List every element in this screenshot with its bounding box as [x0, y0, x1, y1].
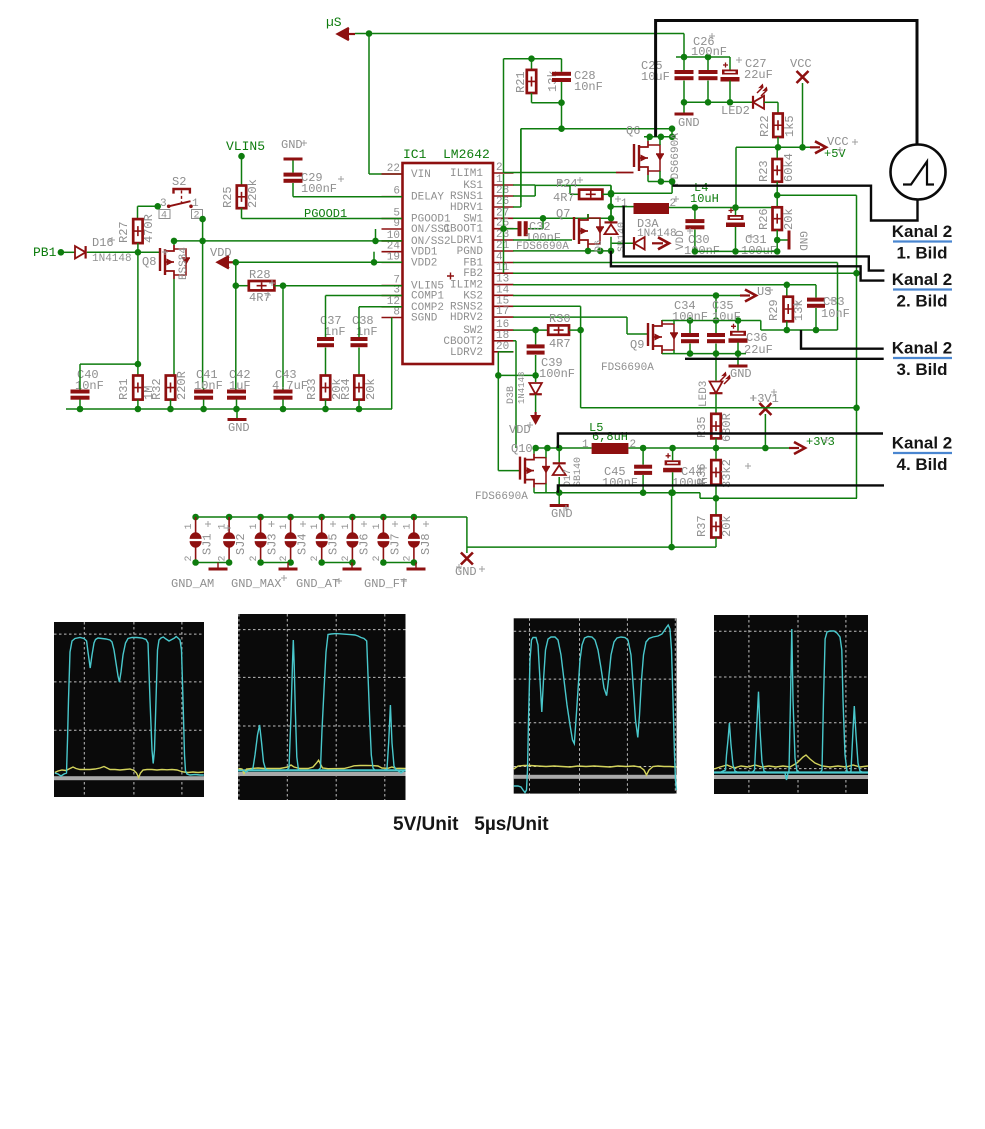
probe line 3. Bild a	[801, 330, 884, 349]
ground GND below C36	[737, 354, 739, 365]
svg-text:D6: D6	[594, 240, 605, 252]
jumper SJ6	[349, 514, 356, 521]
svg-text:2: 2	[310, 555, 321, 561]
wire RSNS1 row	[513, 195, 535, 197]
diode D3B 1N4148	[535, 375, 537, 382]
svg-text:+3V3: +3V3	[806, 435, 835, 449]
svg-text:GND: GND	[228, 421, 250, 435]
capacitor C44 100uF	[672, 448, 674, 460]
wire PGOOD1 net	[241, 208, 243, 218]
svg-text:4R7: 4R7	[549, 337, 571, 351]
wire SJ bottoms	[196, 562, 230, 564]
wire S2 pin3 to R27	[154, 203, 161, 210]
wire SW1 bottom node	[608, 248, 615, 255]
svg-text:SJ5: SJ5	[327, 533, 341, 555]
svg-text:IC1: IC1	[403, 147, 427, 162]
svg-text:SJ4: SJ4	[296, 533, 310, 555]
jumper SJ7	[380, 514, 387, 521]
svg-text:Kanal 2: Kanal 2	[892, 222, 952, 241]
wire PGND1 node	[695, 250, 777, 252]
svg-text:1: 1	[192, 198, 199, 210]
oscilloscope screenshot 1	[54, 622, 204, 797]
svg-text:Kanal 2: Kanal 2	[892, 339, 952, 358]
svg-text:R26: R26	[757, 208, 771, 230]
wire µS net	[355, 33, 684, 35]
svg-text:33k2: 33k2	[720, 459, 734, 488]
net flag US arrow	[740, 294, 750, 296]
svg-text:R36: R36	[695, 463, 709, 485]
capacitor C31 100uF	[735, 208, 737, 216]
svg-text:26: 26	[496, 196, 509, 208]
wire D16 to Q8	[87, 251, 160, 253]
svg-text:ILIM1: ILIM1	[450, 168, 483, 180]
wire ch2 input node top	[662, 320, 761, 322]
jumper SJ4	[287, 514, 294, 521]
net flag VDD down arrow	[535, 395, 537, 413]
wire KS2 row US	[513, 295, 740, 297]
net flag +5V arrow	[810, 146, 820, 148]
svg-text:2: 2	[402, 555, 413, 561]
svg-text:GND: GND	[678, 116, 700, 130]
svg-text:D16: D16	[92, 236, 114, 250]
wire LDRV2 to Q10 gate	[498, 351, 513, 353]
wire divider2 bottom node	[761, 329, 838, 331]
wire R21 C28 bottom	[531, 93, 533, 103]
svg-text:COMP1: COMP1	[411, 291, 444, 303]
jumper SJ5	[318, 514, 325, 521]
wire Q6 drain node	[644, 136, 672, 138]
svg-text:2: 2	[194, 211, 200, 222]
svg-text:R35: R35	[695, 416, 709, 438]
svg-text:R37: R37	[695, 515, 709, 537]
svg-text:100nF: 100nF	[691, 45, 727, 59]
wire RSNS2 long row	[581, 407, 857, 409]
jumper SJ3	[257, 514, 264, 521]
svg-text:5V/Unit 5µs/Unit: 5V/Unit 5µs/Unit	[393, 814, 549, 835]
svg-text:R33: R33	[305, 378, 319, 400]
svg-text:4: 4	[161, 211, 167, 222]
svg-text:R34: R34	[339, 378, 353, 400]
svg-text:100nF: 100nF	[301, 182, 337, 196]
svg-text:GND_MAX: GND_MAX	[231, 577, 281, 591]
capacitor C26	[707, 57, 709, 70]
resistor R37 20k	[715, 498, 717, 515]
capacitor C39 100nF	[527, 344, 545, 348]
capacitor C27	[729, 57, 731, 70]
svg-text:GND: GND	[281, 138, 303, 152]
svg-text:2: 2	[249, 555, 260, 561]
oscilloscope screenshot 3	[514, 618, 677, 793]
jumper SJ2	[226, 514, 233, 521]
resistor R34 20k	[354, 376, 363, 400]
svg-text:PB1: PB1	[33, 245, 57, 260]
svg-text:CBOOT1: CBOOT1	[443, 224, 483, 236]
wire SW2 output node	[534, 447, 592, 449]
svg-text:VIN: VIN	[411, 169, 431, 181]
svg-text:LDRV2: LDRV2	[450, 347, 483, 359]
wire HDRV2 to Q9 gate	[513, 316, 627, 318]
svg-text:R23: R23	[757, 160, 771, 182]
wire row4 to divider2	[513, 262, 838, 264]
svg-text:GND_AT: GND_AT	[296, 577, 339, 591]
svg-text:1nF: 1nF	[324, 325, 346, 339]
svg-text:SGND: SGND	[411, 313, 438, 325]
ic IC1 left pins	[382, 173, 403, 175]
wire +3V3 net	[628, 447, 789, 449]
svg-text:LED2: LED2	[721, 104, 750, 118]
ground flag GND X	[466, 517, 468, 553]
resistor R22 1k5	[773, 114, 782, 138]
svg-text:D3B: D3B	[506, 386, 517, 404]
resistor R35 680R	[715, 394, 717, 414]
svg-text:470R: 470R	[142, 214, 156, 243]
probe line 2. Bild a	[624, 206, 885, 271]
diode D3A 1N4148	[612, 242, 634, 244]
svg-text:VCC: VCC	[790, 57, 812, 71]
oscilloscope screenshot 2	[238, 614, 406, 800]
wire +5V node	[777, 137, 779, 147]
svg-text:22: 22	[387, 163, 400, 175]
capacitor C45 100nF	[642, 448, 644, 465]
svg-text:100nF: 100nF	[602, 476, 638, 490]
svg-text:GND_FT: GND_FT	[364, 577, 407, 591]
capacitor C28 10nF	[561, 59, 563, 72]
wire VOUT1 node	[669, 207, 778, 209]
svg-text:22uF: 22uF	[744, 343, 773, 357]
wire SGND pin 8	[391, 318, 393, 410]
diode D17 SB140	[558, 448, 560, 463]
wire RSNS2 row	[513, 305, 581, 307]
resistor R26 20k	[776, 195, 778, 207]
svg-text:2: 2	[341, 555, 352, 561]
wire CBOOT2 vertical	[513, 340, 516, 342]
svg-text:1N4148: 1N4148	[517, 372, 527, 404]
svg-text:R27: R27	[117, 221, 131, 243]
svg-text:µS: µS	[326, 15, 342, 30]
svg-text:PGND: PGND	[457, 246, 484, 258]
svg-text:FDS6690A: FDS6690A	[670, 133, 682, 186]
svg-text:10nF: 10nF	[821, 307, 850, 321]
svg-text:FB2: FB2	[463, 268, 483, 280]
svg-text:1: 1	[582, 439, 589, 451]
resistor R29 13k	[786, 285, 788, 297]
svg-text:4R7: 4R7	[249, 291, 271, 305]
svg-text:R24: R24	[556, 177, 578, 191]
wire S2 pin2 down	[199, 216, 206, 223]
svg-text:220R: 220R	[175, 371, 189, 400]
wire LDRV1 row	[513, 239, 572, 241]
svg-text:GND_AM: GND_AM	[171, 577, 214, 591]
svg-text:R22: R22	[758, 115, 772, 137]
svg-text:GND: GND	[796, 231, 808, 251]
capacitor C29 100nF	[284, 173, 303, 177]
wire PGND2 node	[534, 492, 700, 494]
resistor R21 13k	[504, 58, 562, 60]
svg-text:2: 2	[496, 162, 503, 174]
wire FB2 row	[513, 272, 857, 274]
svg-text:R25: R25	[221, 186, 235, 208]
origin crosses	[301, 140, 307, 146]
svg-text:SJ3: SJ3	[266, 533, 280, 555]
resistor R23 60k4	[776, 147, 778, 159]
probe line 2. Bild b	[611, 251, 885, 281]
svg-text:FDS6690A: FDS6690A	[601, 362, 654, 374]
wire HDRV1 gate net	[521, 128, 672, 130]
capacitor C25	[683, 57, 685, 70]
svg-text:Q8: Q8	[142, 255, 156, 269]
net flag +3V3 arrow	[789, 447, 799, 449]
svg-text:20: 20	[496, 341, 509, 353]
svg-text:100nF: 100nF	[539, 367, 575, 381]
svg-text:LED3: LED3	[698, 381, 710, 407]
wire LED2 to R22	[764, 101, 778, 103]
svg-text:17: 17	[496, 306, 509, 318]
ground bus GND	[66, 408, 392, 410]
svg-text:R28: R28	[249, 268, 271, 282]
svg-text:FDS6690A: FDS6690A	[475, 491, 528, 503]
svg-text:SJ8: SJ8	[419, 533, 433, 555]
svg-text:R31: R31	[117, 378, 131, 400]
svg-text:2: 2	[630, 439, 637, 451]
svg-text:1: 1	[279, 523, 290, 529]
svg-text:VLIN5: VLIN5	[226, 139, 265, 154]
svg-text:4R7: 4R7	[553, 191, 575, 205]
svg-text:1: 1	[184, 523, 195, 529]
wire VDD net	[236, 261, 402, 263]
wire DELAY net	[293, 196, 402, 198]
inductor L4 10uH	[611, 206, 634, 208]
probe line 3. Bild b	[685, 358, 884, 360]
resistor R36 33k2	[715, 448, 717, 460]
probe line to scope top	[656, 21, 917, 145]
svg-text:2. Bild: 2. Bild	[896, 292, 947, 311]
probe line 4. Bild b	[558, 485, 884, 492]
svg-text:R29: R29	[767, 299, 781, 321]
svg-text:DELAY: DELAY	[411, 192, 444, 204]
svg-text:R21: R21	[514, 71, 528, 93]
svg-text:4. Bild: 4. Bild	[896, 455, 947, 474]
svg-text:VDD2: VDD2	[411, 257, 437, 269]
svg-text:680R: 680R	[720, 413, 734, 442]
LED LED2	[753, 96, 764, 109]
svg-text:Kanal 2: Kanal 2	[892, 270, 952, 289]
svg-text:Kanal 2: Kanal 2	[892, 434, 952, 453]
capacitor C30 100nF	[694, 208, 696, 220]
svg-text:10nF: 10nF	[574, 80, 603, 94]
svg-text:2: 2	[279, 555, 290, 561]
resistor R31 1M	[137, 364, 139, 375]
capacitor C33 10nF	[815, 285, 817, 298]
resistor R32 220R	[166, 376, 175, 400]
wire ON/SS2 net	[174, 240, 402, 242]
capacitor C32 100nF	[504, 228, 518, 230]
svg-text:BSS84: BSS84	[178, 247, 190, 280]
svg-text:SJ2: SJ2	[234, 533, 248, 555]
resistor R25 220k	[241, 156, 243, 185]
svg-text:1: 1	[402, 523, 413, 529]
svg-text:3. Bild: 3. Bild	[896, 360, 947, 379]
svg-text:1: 1	[341, 523, 352, 529]
oscilloscope screenshot 4	[714, 615, 868, 794]
svg-text:HDRV2: HDRV2	[450, 312, 483, 324]
svg-text:Q6: Q6	[626, 124, 640, 138]
svg-text:PGOOD1: PGOOD1	[304, 207, 347, 221]
svg-text:GND: GND	[551, 507, 573, 521]
wire gnd return	[671, 493, 673, 547]
wire SW1 row	[513, 217, 611, 219]
svg-text:8: 8	[393, 307, 400, 319]
svg-text:10uH: 10uH	[690, 192, 719, 206]
svg-text:HDRV1: HDRV1	[450, 202, 483, 214]
svg-text:SJ7: SJ7	[388, 533, 402, 555]
svg-text:R30: R30	[549, 312, 571, 326]
svg-text:22uF: 22uF	[744, 68, 773, 82]
svg-text:SJ1: SJ1	[201, 533, 215, 555]
svg-text:6,8uH: 6,8uH	[592, 430, 628, 444]
wire ch2 gnd node	[662, 353, 746, 355]
ic IC1 right pins	[493, 172, 514, 174]
svg-text:1. Bild: 1. Bild	[896, 244, 947, 263]
jumper SJ1	[192, 514, 199, 521]
wire HDRV1 row to Q6 gate	[513, 206, 521, 208]
ground GND below Q10	[558, 493, 560, 504]
svg-text:2: 2	[372, 555, 383, 561]
svg-text:13k: 13k	[792, 299, 806, 321]
svg-text:R32: R32	[150, 378, 164, 400]
node VIN caps top	[676, 56, 730, 58]
svg-text:Q7: Q7	[556, 207, 570, 221]
svg-text:SB140: SB140	[573, 457, 584, 487]
diode D16 1N4148	[75, 246, 86, 258]
jumper SJ8	[411, 514, 418, 521]
wire SW2 row to R30	[513, 329, 548, 331]
wire ON/SS1 jog	[375, 229, 377, 241]
svg-text:9: 9	[393, 218, 400, 230]
svg-text:Q9: Q9	[630, 338, 644, 352]
ground GND symbol	[236, 409, 238, 418]
svg-text:6: 6	[393, 186, 400, 198]
svg-text:60k4: 60k4	[782, 153, 796, 182]
svg-text:Q10: Q10	[511, 442, 533, 456]
svg-text:1: 1	[372, 523, 383, 529]
svg-text:1k5: 1k5	[783, 115, 797, 137]
oscilloscope symbol	[891, 145, 946, 200]
wire SW2 to C39	[535, 330, 537, 344]
power flag VCC X	[802, 83, 804, 147]
svg-text:1: 1	[218, 523, 229, 529]
svg-text:+5V: +5V	[824, 147, 846, 161]
svg-text:2: 2	[184, 555, 195, 561]
svg-text:19: 19	[387, 251, 400, 263]
svg-text:2: 2	[218, 555, 229, 561]
svg-text:GND: GND	[730, 367, 752, 381]
wire SJ top bus	[195, 516, 467, 518]
svg-text:220k: 220k	[246, 179, 260, 208]
ground GND rotated right of R26	[774, 237, 781, 244]
wire ILIM1 row	[503, 59, 505, 173]
wire VLIN5 pin net	[274, 285, 402, 287]
svg-text:3: 3	[160, 198, 167, 210]
svg-text:20k: 20k	[782, 208, 796, 230]
wire KS1 row	[513, 184, 535, 186]
capacitor C36 22uF	[737, 321, 739, 331]
wire ILIM2 row	[513, 284, 816, 286]
wire FB1 divider node	[774, 192, 781, 199]
probe line 1. Bild	[673, 186, 918, 221]
wire PGND row	[513, 250, 611, 252]
resistor R27 470R	[133, 219, 142, 243]
probe line 4. Bild a	[558, 434, 883, 449]
ground GND below C25	[683, 102, 685, 113]
svg-text:1N4148: 1N4148	[637, 228, 677, 240]
wire SW1 node Q6 source	[648, 181, 672, 183]
svg-text:1N4148: 1N4148	[92, 253, 132, 265]
wire caps bottom node	[684, 101, 753, 103]
svg-text:1: 1	[249, 523, 260, 529]
svg-text:1: 1	[310, 523, 321, 529]
svg-text:20k: 20k	[720, 515, 734, 537]
svg-text:S2: S2	[172, 175, 186, 189]
resistor R33 20k	[321, 376, 330, 400]
resistor R28 4R7	[236, 285, 249, 287]
svg-text:LM2642: LM2642	[443, 147, 490, 162]
net flag VDD right arrow	[652, 242, 663, 244]
svg-text:SJ6: SJ6	[357, 533, 371, 555]
svg-text:US: US	[757, 285, 771, 299]
svg-text:20k: 20k	[364, 378, 378, 400]
wire VDD1 jog	[373, 252, 375, 263]
diode D6 SB140	[605, 221, 618, 223]
LED LED3	[715, 354, 717, 381]
